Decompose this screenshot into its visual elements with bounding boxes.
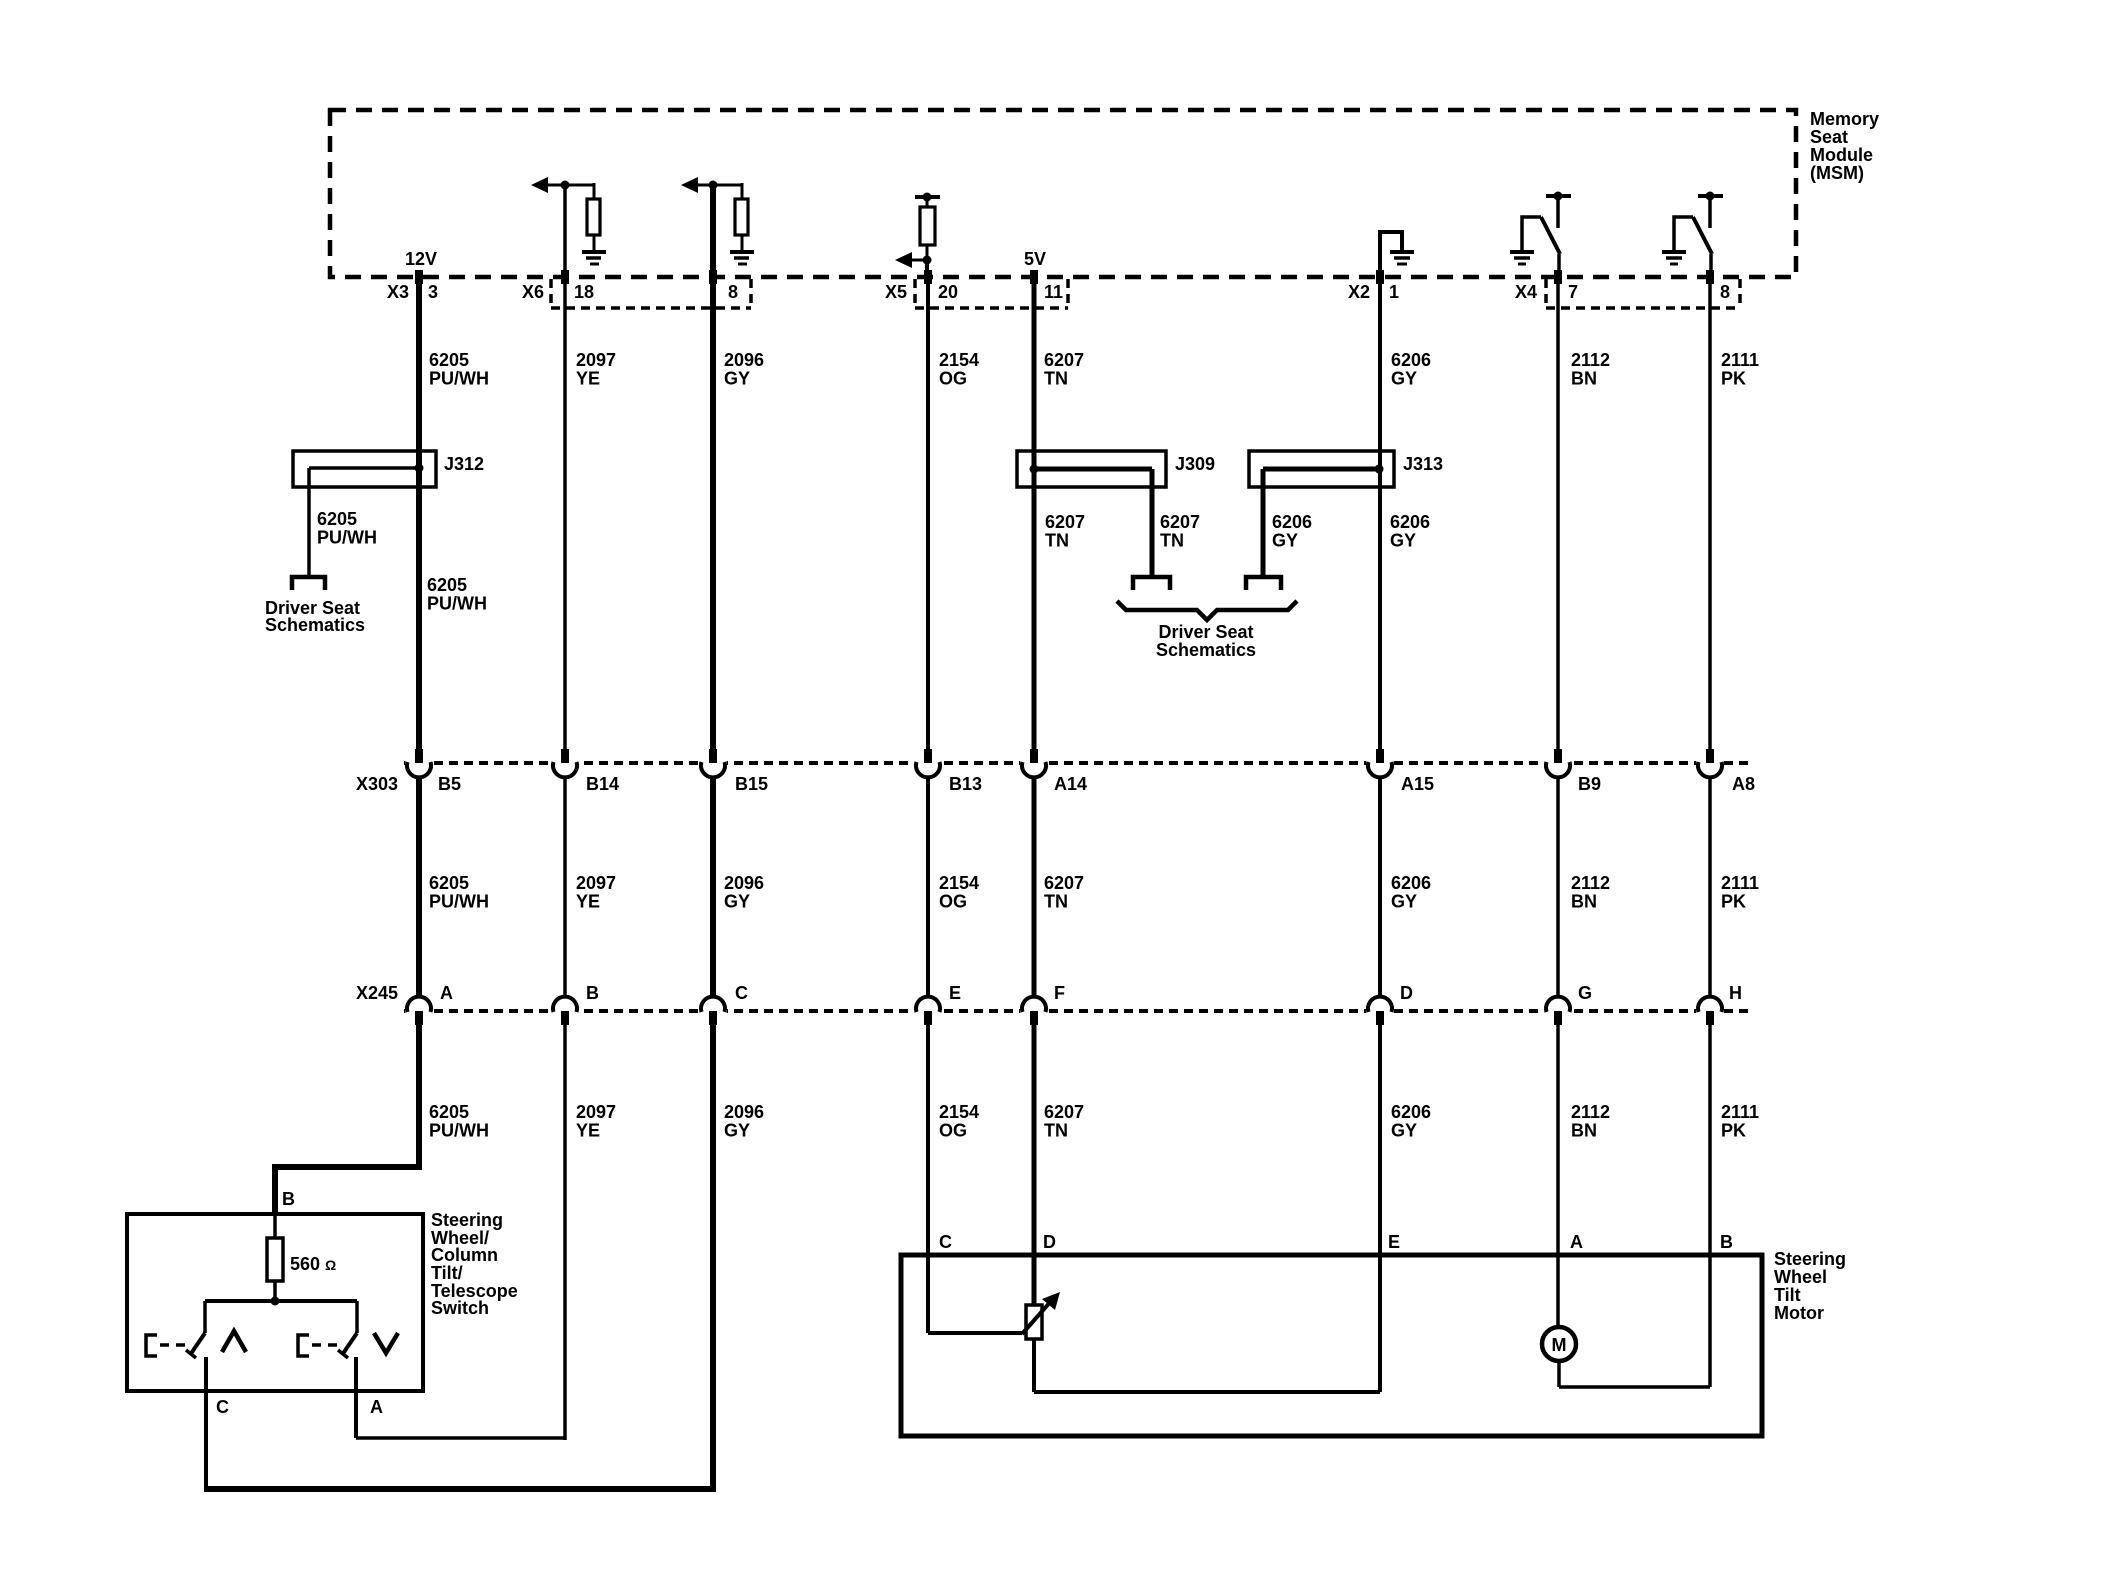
junction on pin 18 wire (561, 181, 570, 190)
svg-text:G: G (1578, 983, 1592, 1003)
svg-text:A14: A14 (1054, 774, 1087, 794)
connector X6 dashed pin box (551, 279, 751, 308)
svg-text:B: B (282, 1189, 295, 1209)
svg-text:3: 3 (428, 282, 438, 302)
wire 2154 OG lower segment (926, 1025, 930, 1333)
svg-text:Wheel: Wheel (1774, 1267, 1827, 1287)
svg-text:H: H (1729, 983, 1742, 1003)
connector X4 dashed pin box (1546, 279, 1740, 308)
svg-text:18: 18 (574, 282, 594, 302)
svg-text:E: E (949, 983, 961, 1003)
svg-text:Steering: Steering (431, 1210, 503, 1230)
switch to ground on pin X4-7 (1554, 192, 1563, 201)
Memory Seat Module (MSM) dashed box (330, 110, 1796, 277)
svg-text:Memory: Memory (1810, 109, 1879, 129)
wiper feed wire (C) (928, 1331, 1022, 1335)
Steering Wheel Tilt Motor box (901, 1255, 1762, 1436)
svg-text:Steering: Steering (1774, 1249, 1846, 1269)
svg-text:X2: X2 (1348, 282, 1370, 302)
wire 6207 TN lower segment (1032, 1025, 1037, 1305)
wire 2096 GY lower segment (710, 1025, 716, 1492)
X245 connector cups (407, 997, 1722, 1012)
wire 2112 BN lower segment (1556, 1025, 1560, 1327)
ground (X2-1) (1390, 252, 1414, 264)
svg-text:B14: B14 (586, 774, 619, 794)
svg-text:C: C (216, 1397, 229, 1417)
splice J312 (293, 451, 436, 487)
svg-text:Schematics: Schematics (265, 615, 365, 635)
svg-text:8: 8 (1720, 282, 1730, 302)
wire switch C to 2096 GY (204, 1486, 713, 1492)
svg-text:J309: J309 (1175, 454, 1215, 474)
wire 2096 GY upper segment (710, 284, 716, 751)
wire 6206 GY upper segment (1378, 284, 1382, 751)
svg-text:Motor: Motor (1774, 1303, 1824, 1323)
svg-text:X303: X303 (356, 774, 398, 794)
junction dot below resistor (271, 1297, 280, 1306)
svg-text:J313: J313 (1403, 454, 1443, 474)
resistor (pull-down to ground, pin 8) (735, 199, 748, 235)
connector X5 dashed pin box (915, 279, 1068, 308)
svg-text:Driver Seat: Driver Seat (1158, 622, 1253, 642)
svg-text:Tilt/: Tilt/ (431, 1263, 463, 1283)
svg-text:5V: 5V (1024, 249, 1046, 269)
wire 6207 TN mid segment (1032, 776, 1037, 998)
resistor (pull-down to ground, pin 18) (587, 199, 600, 235)
wire 2111 PK lower segment (1708, 1025, 1712, 1387)
svg-text:D: D (1043, 1232, 1056, 1252)
svg-text:F: F (1054, 983, 1065, 1003)
svg-text:560 Ω: 560 Ω (290, 1254, 336, 1274)
wire 2097 YE upper segment (563, 284, 567, 751)
svg-text:B: B (1720, 1232, 1733, 1252)
off-page connector (J312 branch to Driver Seat Schematics) (292, 577, 325, 590)
arrow out on pin 20 wire (911, 259, 927, 262)
wire 2154 OG mid segment (926, 776, 930, 998)
wire 6205 PU/WH upper segment (416, 284, 422, 751)
off-page connector (J313 branch) (1246, 577, 1281, 590)
svg-text:B13: B13 (949, 774, 982, 794)
wiper arrow (1022, 1300, 1052, 1334)
internal pull-up: arrow on pin 8 line (697, 183, 742, 199)
svg-text:X5: X5 (885, 282, 907, 302)
X245 pin nubs (415, 1011, 1714, 1025)
svg-text:A8: A8 (1732, 774, 1755, 794)
wire 2112 BN mid segment (1556, 776, 1560, 998)
svg-text:X4: X4 (1515, 282, 1537, 302)
off-page connector (J309 branch) (1133, 577, 1170, 590)
svg-text:B: B (586, 983, 599, 1003)
splice J313 (1249, 451, 1394, 487)
down chevron (374, 1333, 398, 1353)
tilt-down switch (right) (355, 1301, 359, 1333)
wire 2111 PK upper segment (1708, 284, 1712, 751)
svg-text:Module: Module (1810, 145, 1873, 165)
wire 2111 PK mid segment (1708, 776, 1712, 998)
switch to ground on pin X4-8 (1706, 192, 1715, 201)
sense resistor on pin 20 with T top (915, 195, 940, 199)
wire 2154 OG upper segment (926, 284, 930, 751)
up chevron (222, 1331, 246, 1352)
wire 6206 GY mid segment (1378, 776, 1382, 998)
wire 6205 PU/WH mid segment (416, 776, 422, 998)
svg-text:C: C (735, 983, 748, 1003)
svg-text:7: 7 (1568, 282, 1578, 302)
svg-text:8: 8 (728, 282, 738, 302)
svg-text:1: 1 (1389, 282, 1399, 302)
wire 6207 TN upper segment (1032, 284, 1037, 751)
svg-text:Schematics: Schematics (1156, 640, 1256, 660)
svg-text:B9: B9 (1578, 774, 1601, 794)
ground (pin 8 resistor) (730, 252, 754, 264)
ground (X4-8 switch) (1662, 252, 1686, 264)
ground (pin 18 resistor) (582, 252, 606, 264)
resistor 560 ohm (273, 1214, 277, 1238)
connector row X303 dashed line (404, 761, 1748, 765)
ground hook on pin X2-1 (1380, 232, 1402, 277)
connector pin nubs at module bottom edge (415, 270, 1714, 284)
ground (X4-7 switch) (1510, 252, 1534, 264)
junction on pin 8 wire (709, 181, 718, 190)
svg-text:B15: B15 (735, 774, 768, 794)
X303 pin nubs (415, 749, 1714, 763)
mechanical linkage bracket (right switch) (298, 1335, 309, 1356)
connector row X245 dashed line (404, 1009, 1748, 1013)
svg-text:12V: 12V (405, 249, 437, 269)
motor lower lead (A to B) (1557, 1361, 1561, 1387)
internal pull-up: arrow on pin 18 line (547, 183, 594, 199)
position sensor resistor element (1026, 1305, 1042, 1339)
wire: pin 20 inside module (925, 260, 929, 277)
svg-text:Column: Column (431, 1245, 498, 1265)
svg-text:Switch: Switch (431, 1298, 489, 1318)
X303 connector cups (407, 762, 1722, 777)
wire switch A to 2097 YE (356, 1436, 565, 1440)
svg-text:(MSM): (MSM) (1810, 163, 1864, 183)
svg-text:M: M (1552, 1335, 1567, 1355)
svg-text:E: E (1388, 1232, 1400, 1252)
svg-text:20: 20 (938, 282, 958, 302)
Steering Wheel/Column Tilt/Telescope Switch box (127, 1214, 423, 1391)
mechanical linkage bracket (left switch) (146, 1335, 157, 1356)
sensor lower lead (D to E) (1032, 1339, 1036, 1392)
wire bar joining both switch tops (205, 1299, 357, 1303)
svg-text:X6: X6 (522, 282, 544, 302)
wire 2096 GY mid segment (710, 776, 716, 998)
wire: pin 8 inside module (710, 185, 716, 277)
svg-text:A15: A15 (1401, 774, 1434, 794)
svg-text:X245: X245 (356, 983, 398, 1003)
svg-text:Seat: Seat (1810, 127, 1848, 147)
wire: pin 18 inside module (563, 185, 567, 277)
wire 2097 YE lower segment (563, 1025, 567, 1440)
svg-text:Tilt: Tilt (1774, 1285, 1801, 1305)
svg-text:D: D (1400, 983, 1413, 1003)
svg-text:A: A (1570, 1232, 1583, 1252)
svg-text:J312: J312 (444, 454, 484, 474)
svg-text:B5: B5 (438, 774, 461, 794)
svg-text:11: 11 (1044, 282, 1063, 302)
motor M1 (1542, 1327, 1576, 1361)
svg-text:A: A (370, 1397, 383, 1417)
splice J309 (1017, 451, 1166, 487)
wire 2097 YE mid segment (563, 776, 567, 998)
wire 2112 BN upper segment (1556, 284, 1560, 751)
svg-text:X3: X3 (387, 282, 409, 302)
svg-text:A: A (440, 983, 453, 1003)
svg-text:C: C (939, 1232, 952, 1252)
brace grouping J309/J313 drops (1117, 601, 1297, 620)
wire 6205 PU/WH to switch (node B) (275, 1025, 419, 1214)
tilt-up switch (left) (203, 1301, 207, 1333)
wire 6206 GY lower segment (1378, 1025, 1382, 1392)
